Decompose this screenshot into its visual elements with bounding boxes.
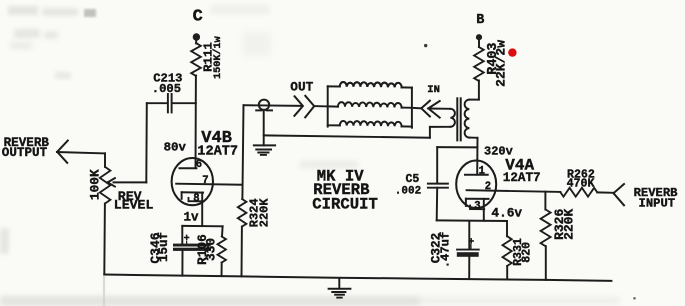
svg-text:OUTPUT: OUTPUT	[2, 146, 48, 160]
svg-text:8: 8	[193, 193, 199, 205]
svg-text:220K: 220K	[258, 198, 272, 228]
svg-text:OUT: OUT	[290, 80, 313, 95]
svg-text:12AT7: 12AT7	[197, 144, 238, 159]
svg-text:12AT7: 12AT7	[503, 171, 541, 185]
svg-text:150K/1w: 150K/1w	[212, 35, 224, 79]
svg-text:15uf: 15uf	[157, 232, 171, 262]
svg-text:330: 330	[203, 238, 218, 261]
svg-text:IN: IN	[427, 84, 440, 96]
svg-text:7: 7	[202, 175, 208, 187]
svg-text:1: 1	[479, 165, 485, 177]
svg-text:2: 2	[485, 181, 491, 193]
svg-text:.002: .002	[395, 186, 421, 198]
svg-text:CIRCUIT: CIRCUIT	[312, 196, 378, 214]
svg-text:220K: 220K	[561, 209, 576, 240]
svg-text:470K: 470K	[567, 178, 595, 191]
svg-text:LEVEL: LEVEL	[114, 198, 154, 213]
svg-text:820: 820	[520, 242, 533, 263]
svg-text:22K/2w: 22K/2w	[493, 40, 508, 87]
svg-text:C: C	[193, 8, 203, 27]
svg-text:+: +	[468, 237, 474, 248]
svg-text:3: 3	[474, 200, 480, 212]
svg-text:INPUT: INPUT	[639, 197, 676, 211]
svg-text:.47uf: .47uf	[439, 232, 453, 269]
svg-text:B: B	[476, 13, 484, 28]
svg-text:6: 6	[196, 159, 202, 171]
svg-text:80v: 80v	[164, 140, 187, 154]
svg-text:1v: 1v	[184, 210, 200, 224]
svg-text:100K: 100K	[87, 169, 102, 200]
svg-text:C5: C5	[406, 173, 420, 186]
svg-text:4.6v: 4.6v	[491, 205, 522, 220]
svg-text:.005: .005	[152, 82, 181, 96]
svg-text:+: +	[184, 234, 190, 245]
